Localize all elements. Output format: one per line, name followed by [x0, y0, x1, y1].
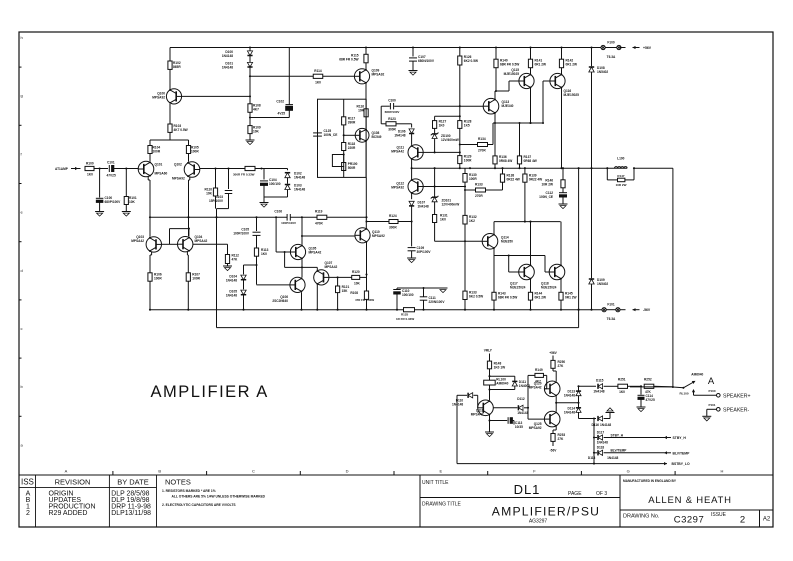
- svg-text:2: 2: [740, 515, 745, 526]
- transistor Q119: [471, 400, 494, 417]
- svg-text:AM6040: AM6040: [691, 373, 703, 377]
- resistor R250: [551, 360, 565, 368]
- svg-text:1N4148: 1N4148: [226, 279, 237, 283]
- svg-text:B: B: [158, 469, 161, 474]
- svg-text:10R 2W: 10R 2W: [541, 183, 553, 187]
- frame column letters: [65, 469, 724, 476]
- node A channel label: [708, 376, 715, 387]
- resistor R137: [517, 123, 536, 168]
- wire: [316, 267, 318, 270]
- svg-text:220N/100V: 220N/100V: [429, 300, 446, 304]
- node -56V output: [620, 308, 651, 312]
- wire: [579, 417, 597, 419]
- svg-text:0R1 2W: 0R1 2W: [565, 296, 577, 300]
- wire feedback tap: [217, 208, 229, 210]
- svg-text:270R: 270R: [475, 194, 483, 198]
- svg-text:BSTBY_LO: BSTBY_LO: [672, 462, 690, 466]
- resistor R106: [148, 273, 162, 282]
- svg-text:1N5402: 1N5402: [597, 282, 608, 286]
- svg-text:RL100: RL100: [679, 392, 688, 396]
- svg-text:MPSA92: MPSA92: [529, 426, 542, 430]
- wire: [257, 284, 290, 286]
- node -56V lower: [550, 441, 558, 452]
- svg-text:+56V: +56V: [549, 351, 557, 355]
- svg-text:D118: D118: [588, 456, 596, 460]
- svg-text:680N/100V: 680N/100V: [418, 59, 435, 63]
- wire: [527, 375, 529, 419]
- capacitor C111: [420, 288, 446, 310]
- wire: [113, 167, 139, 169]
- svg-text:DRAWING TITLE: DRAWING TITLE: [422, 502, 462, 508]
- svg-text:100N_CE: 100N_CE: [539, 195, 553, 199]
- resistor R108b: [248, 96, 261, 112]
- resistor R129: [458, 155, 472, 164]
- svg-text:ALLEN & HEATH: ALLEN & HEATH: [648, 495, 732, 506]
- port P101: [708, 403, 720, 411]
- resistor R130: [463, 168, 477, 182]
- svg-text:100R: 100R: [192, 277, 200, 281]
- transistor Q102: [172, 162, 200, 181]
- wire: [188, 154, 190, 162]
- svg-text:DL1: DL1: [514, 482, 541, 497]
- resistor R148: [487, 361, 505, 370]
- ground: [702, 416, 711, 421]
- resistor R109: [248, 126, 261, 134]
- svg-text:ISSUE: ISSUE: [711, 512, 727, 518]
- drawing number: [623, 512, 771, 526]
- resistor R102: [168, 48, 181, 70]
- wire input: [78, 168, 81, 170]
- diode D118: [588, 446, 664, 460]
- wire: [528, 418, 544, 420]
- wire Q102 emitter down: [187, 177, 189, 236]
- svg-text:1N4148: 1N4148: [593, 390, 604, 394]
- svg-text:68R FR 0.5W: 68R FR 0.5W: [339, 58, 358, 62]
- svg-text:C101: C101: [107, 161, 115, 165]
- resistor R138: [500, 168, 519, 190]
- svg-text:g: g: [21, 93, 23, 98]
- relay coil RL100: [484, 378, 509, 401]
- svg-text:STBY_H: STBY_H: [611, 433, 624, 437]
- diode D108: [589, 46, 609, 168]
- diode D110: [452, 393, 478, 408]
- svg-text:BY DATE: BY DATE: [117, 478, 148, 487]
- resistor R125: [396, 308, 415, 321]
- node VRLY: [484, 349, 493, 362]
- wire Q109 emitter: [365, 83, 367, 99]
- node +56V input: [633, 46, 652, 50]
- wire Q116 base: [542, 81, 550, 124]
- wire Q114 emitter: [493, 248, 495, 256]
- capacitor C100: [96, 169, 121, 212]
- resistor R139: [523, 168, 542, 221]
- svg-text:100P/100V: 100P/100V: [281, 221, 296, 225]
- resistor R144: [528, 279, 546, 310]
- transistor Q109: [354, 69, 384, 84]
- svg-text:1R FR 0.33W: 1R FR 0.33W: [396, 317, 414, 321]
- resistor R134: [460, 123, 493, 152]
- capacitor C125: [313, 129, 337, 137]
- svg-text:0R68 4W: 0R68 4W: [499, 159, 512, 163]
- svg-text:68R FR 0.5W: 68R FR 0.5W: [500, 63, 519, 67]
- svg-text:R251: R251: [618, 378, 626, 382]
- svg-text:0R68 4W: 0R68 4W: [524, 159, 537, 163]
- svg-text:D112: D112: [517, 397, 525, 401]
- svg-text:MJE350: MJE350: [501, 240, 513, 244]
- svg-text:UNIT TITLE: UNIT TITLE: [422, 480, 449, 486]
- fuse F100: [601, 41, 621, 60]
- svg-text:MPSA92: MPSA92: [372, 73, 385, 77]
- svg-text:+56V: +56V: [643, 46, 652, 50]
- svg-text:1N4148: 1N4148: [222, 66, 233, 70]
- svg-text:100/100: 100/100: [269, 182, 281, 186]
- svg-text:500R: 500R: [348, 166, 356, 170]
- wire to relay contact: [630, 386, 673, 388]
- capacitor C101: [107, 161, 116, 178]
- wire: [365, 299, 367, 310]
- transistor Q113: [483, 98, 513, 114]
- preset PR100: [332, 155, 357, 171]
- transistor Q111: [391, 145, 423, 160]
- wire emitter bus: [285, 252, 318, 278]
- transistor Q115: [504, 68, 535, 89]
- svg-text:AG3297: AG3297: [529, 519, 548, 525]
- resistor R131: [433, 214, 448, 223]
- svg-text:R119: R119: [315, 210, 323, 214]
- wire long vertical: [365, 177, 367, 291]
- wire: [343, 125, 356, 143]
- wire: [707, 409, 717, 416]
- svg-text:12V/400mW: 12V/400mW: [441, 138, 459, 142]
- svg-text:680P/100V: 680P/100V: [105, 200, 122, 204]
- wire Q118 base feed: [545, 256, 549, 273]
- svg-text:4K7 0.5W: 4K7 0.5W: [174, 128, 188, 132]
- svg-text:MPSA92: MPSA92: [372, 234, 385, 238]
- svg-text:1N4148: 1N4148: [600, 423, 611, 427]
- svg-text:1N4148: 1N4148: [607, 456, 618, 460]
- svg-text:1K0: 1K0: [439, 124, 445, 128]
- svg-text:BLV/TEMP: BLV/TEMP: [611, 449, 628, 453]
- svg-text:ISS: ISS: [21, 478, 34, 487]
- svg-text:C100: C100: [388, 99, 396, 103]
- port P100: [708, 389, 720, 397]
- svg-text:100R: 100R: [153, 150, 161, 154]
- svg-text:P100: P100: [708, 389, 715, 393]
- wire: [249, 68, 251, 98]
- wire Q113 collector: [495, 68, 497, 100]
- capacitor C110: [393, 288, 413, 310]
- svg-text:1N4148: 1N4148: [394, 134, 405, 138]
- svg-text:R252: R252: [644, 378, 652, 382]
- zener ZD101: [431, 168, 459, 214]
- resistor R143: [492, 256, 517, 310]
- resistor R149: [528, 368, 547, 389]
- svg-text:100/100: 100/100: [402, 293, 414, 297]
- svg-text:PAGE: PAGE: [568, 491, 582, 497]
- svg-text:27K: 27K: [558, 364, 565, 368]
- wire: [242, 295, 244, 311]
- svg-text:1K0: 1K0: [87, 173, 93, 177]
- wire Q100 base: [182, 95, 250, 97]
- svg-text:4K7: 4K7: [253, 108, 259, 112]
- wire -56V bottom rail: [150, 309, 602, 311]
- transistor Q108: [355, 128, 381, 142]
- wire: [316, 284, 318, 310]
- transistor Q103: [131, 235, 161, 252]
- svg-text:T6.3A: T6.3A: [607, 317, 616, 321]
- wire Q102 out line: [200, 167, 263, 169]
- svg-text:R134: R134: [478, 137, 486, 141]
- wire: [186, 252, 189, 273]
- svg-text:1N4148: 1N4148: [294, 176, 305, 180]
- ground: [409, 71, 418, 76]
- svg-text:SPEAKER-: SPEAKER-: [723, 407, 750, 413]
- svg-text:NOTES: NOTES: [165, 478, 191, 487]
- ground: [407, 258, 416, 263]
- wire driver bus: [494, 254, 545, 256]
- svg-text:1N4148: 1N4148: [452, 403, 463, 407]
- svg-text:1N5402: 1N5402: [597, 70, 608, 74]
- diode D113: [564, 386, 581, 404]
- wire: [323, 75, 355, 77]
- svg-text:R114: R114: [314, 69, 322, 73]
- wire: [149, 281, 151, 311]
- inductor L100: [615, 157, 628, 169]
- transistor Q107: [314, 261, 338, 285]
- fuse F101: [602, 303, 620, 322]
- wire Q114 collector line: [494, 221, 561, 235]
- wire: [694, 394, 717, 396]
- node AT1AMP input: [55, 167, 78, 171]
- svg-text:AT1AMP: AT1AMP: [55, 167, 69, 171]
- wire: [459, 128, 461, 155]
- title block left table: [19, 475, 773, 527]
- wire Q119 emitter: [488, 414, 490, 432]
- resistor R104: [148, 146, 161, 154]
- capacitor C107: [409, 46, 435, 70]
- svg-text:1K0 1W: 1K0 1W: [494, 366, 506, 370]
- table headers: [21, 478, 191, 487]
- wire: [435, 223, 483, 242]
- svg-text:27K: 27K: [558, 437, 565, 441]
- svg-text:10K: 10K: [129, 200, 136, 204]
- wire: [464, 224, 466, 291]
- wire tail splitter: [150, 132, 189, 145]
- wire Q116 emitter: [561, 88, 563, 169]
- diode D102: [285, 169, 306, 180]
- svg-text:R123: R123: [388, 117, 396, 121]
- svg-text:390R: 390R: [348, 121, 356, 125]
- svg-text:F101: F101: [607, 303, 614, 307]
- transistor Q100: [152, 69, 181, 104]
- wire feedback box: [215, 168, 579, 327]
- resistor R116: [357, 99, 369, 117]
- svg-text:30P/100V: 30P/100V: [417, 250, 432, 254]
- transistor Q118: [541, 264, 565, 290]
- wire: [464, 300, 466, 311]
- transistor Q112: [391, 168, 423, 194]
- resistor R100: [85, 162, 94, 177]
- svg-text:300R FR 0.33W: 300R FR 0.33W: [233, 173, 255, 177]
- svg-text:A: A: [708, 376, 715, 387]
- resistor R103: [168, 104, 188, 132]
- svg-text:MPSA92: MPSA92: [152, 96, 165, 100]
- resistor R113: [254, 248, 268, 256]
- wire R114 line: [250, 75, 313, 77]
- wire rail Y1: [149, 216, 368, 218]
- resistor R118: [342, 142, 356, 151]
- diode D112: [493, 397, 528, 415]
- svg-text:1N4148: 1N4148: [517, 411, 528, 415]
- svg-text:1N4148: 1N4148: [597, 441, 608, 445]
- wire: [435, 115, 461, 120]
- svg-text:47V25: 47V25: [646, 398, 655, 402]
- svg-text:0R22 4W: 0R22 4W: [507, 178, 520, 182]
- svg-text:1. RESISTORS MARKED * ARE 1%: 1. RESISTORS MARKED * ARE 1%: [162, 489, 216, 493]
- wire: [94, 167, 108, 169]
- svg-text:C102: C102: [276, 100, 284, 104]
- ground: [95, 212, 104, 217]
- svg-text:MPSA42: MPSA42: [325, 265, 338, 269]
- wire Q113 base line: [381, 105, 483, 107]
- svg-text:1N4148: 1N4148: [418, 205, 429, 209]
- svg-text:MJE15024: MJE15024: [541, 286, 557, 290]
- svg-text:c: c: [21, 326, 23, 331]
- resistor R115: [339, 46, 368, 62]
- wire: [489, 369, 491, 380]
- diode D104: [226, 275, 246, 283]
- wire: [149, 154, 151, 162]
- resistor R110: [205, 169, 218, 209]
- svg-text:C3297: C3297: [674, 515, 705, 526]
- wire: [560, 222, 562, 266]
- wire: [555, 396, 578, 411]
- svg-text:1K0: 1K0: [261, 252, 267, 256]
- wire: [249, 112, 251, 125]
- svg-text:MPSA92: MPSA92: [172, 177, 185, 181]
- AMPLIFIER A title text: [151, 383, 269, 401]
- diode D115: [593, 379, 604, 394]
- capacitor C106: [274, 210, 296, 226]
- node STBY_H: [664, 436, 686, 440]
- resistor R120: [329, 270, 367, 286]
- ground: [559, 204, 568, 209]
- svg-text:0R1 2W: 0R1 2W: [566, 63, 578, 67]
- svg-text:R120: R120: [352, 270, 360, 274]
- transistor Q117: [510, 264, 534, 290]
- bias network box: [318, 99, 367, 177]
- capacitor C112: [539, 188, 567, 204]
- drawing title: [422, 502, 600, 525]
- svg-text:0R22 4W: 0R22 4W: [529, 178, 542, 182]
- svg-text:DLP13/11/98: DLP13/11/98: [111, 510, 151, 517]
- svg-text:-56V: -56V: [550, 449, 558, 453]
- svg-text:10K: 10K: [253, 130, 260, 134]
- svg-text:MPSA60: MPSA60: [155, 172, 168, 176]
- resistor R132: [463, 215, 477, 224]
- svg-text:MJE15025: MJE15025: [504, 72, 520, 76]
- svg-text:15P/100V: 15P/100V: [209, 199, 224, 203]
- transistor Q110: [355, 228, 385, 243]
- svg-text:BC549: BC549: [372, 135, 382, 139]
- svg-text:1K0: 1K0: [315, 81, 321, 85]
- svg-text:-56V: -56V: [643, 308, 651, 312]
- svg-text:300R: 300R: [388, 127, 396, 131]
- svg-text:AMPLIFIER/PSU: AMPLIFIER/PSU: [492, 505, 600, 519]
- transistor Q104: [178, 235, 208, 252]
- unit title: [422, 480, 607, 497]
- diode D100: [222, 46, 253, 58]
- wire protection bottom: [457, 395, 660, 463]
- zener ZD100: [431, 128, 459, 152]
- ground: [122, 212, 131, 217]
- svg-text:1K5: 1K5: [464, 124, 470, 128]
- resistor R133: [465, 183, 503, 198]
- svg-text:AMPLIFIER A: AMPLIFIER A: [151, 383, 269, 401]
- svg-text:100N_CE: 100N_CE: [324, 133, 338, 137]
- capacitor C102: [250, 48, 293, 118]
- svg-text:P101: P101: [708, 403, 715, 407]
- svg-text:D: D: [346, 469, 349, 474]
- transistor Q125: [529, 411, 560, 430]
- svg-text:MJE340: MJE340: [502, 104, 514, 108]
- wire: [343, 151, 345, 163]
- ground: [246, 140, 255, 145]
- frame row letters: [19, 35, 24, 447]
- svg-text:R149: R149: [535, 368, 543, 372]
- diode D107: [409, 193, 429, 221]
- svg-text:470R: 470R: [315, 221, 323, 225]
- resistor R141: [528, 46, 546, 74]
- svg-text:d: d: [21, 268, 23, 273]
- svg-text:Q101: Q101: [155, 163, 163, 167]
- transistor Q101: [138, 161, 167, 177]
- wire: [187, 281, 189, 311]
- svg-text:2: 2: [26, 510, 30, 517]
- resistor R117: [342, 99, 356, 125]
- ground: [485, 432, 494, 437]
- node BSTBY_LO: [660, 462, 690, 466]
- svg-text:MPSA92: MPSA92: [391, 186, 404, 190]
- transistor Q106: [272, 277, 305, 303]
- diode D101: [222, 56, 253, 70]
- resistor R126: [458, 46, 478, 116]
- svg-text:865R: 865R: [173, 65, 181, 69]
- svg-text:STBY_H: STBY_H: [673, 436, 687, 440]
- wire: [397, 287, 443, 289]
- svg-text:1N4148: 1N4148: [564, 394, 575, 398]
- wire: [459, 164, 461, 169]
- svg-text:0R1 2W: 0R1 2W: [535, 296, 547, 300]
- svg-text:A: A: [65, 469, 68, 474]
- resistor R140: [494, 46, 519, 67]
- node BLV/TEMP: [664, 451, 690, 455]
- resistor R145: [559, 279, 577, 310]
- resistor R127: [433, 120, 447, 129]
- svg-text:47V25: 47V25: [107, 174, 116, 178]
- svg-text:270R: 270R: [478, 148, 486, 152]
- wire +56V top rail: [170, 47, 626, 49]
- svg-text:F100: F100: [607, 41, 614, 45]
- svg-text:DRAWING No.: DRAWING No.: [623, 514, 660, 520]
- ground: [637, 407, 646, 412]
- capacitor C104: [260, 169, 281, 198]
- diode D111: [488, 375, 530, 390]
- svg-text:1N4148: 1N4148: [226, 294, 237, 298]
- svg-text:E: E: [439, 469, 442, 474]
- wire: [150, 252, 152, 273]
- svg-text:10R 2W: 10R 2W: [616, 183, 627, 187]
